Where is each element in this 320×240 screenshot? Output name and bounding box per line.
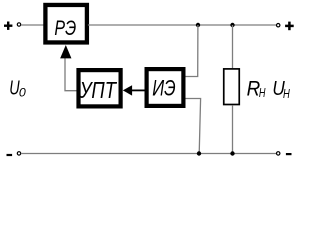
junction node on top wire (x=198) (196, 23, 200, 27)
junction node on top wire (x=232.5) (230, 23, 234, 27)
terminal circle bottom-right (277, 152, 280, 155)
arrowhead into RE bottom (60, 45, 71, 58)
terminal + (top-left) (4, 22, 12, 30)
wire: IE upper tap to top rail (186, 25, 198, 77)
block IE (measuring element) (147, 69, 184, 106)
block RE (regulating element) (45, 5, 87, 43)
wire: RE block to top-right terminal (88, 24, 277, 26)
svg-text:УПТ: УПТ (79, 77, 118, 103)
junction node on bottom rail (x=232.5) (230, 151, 234, 155)
resistor Rn (224, 69, 240, 105)
arrowhead into UPT right side (123, 85, 132, 95)
svg-text:0: 0 (19, 86, 26, 100)
wire: IE lower tap to bottom rail (186, 99, 201, 154)
wire: top-left terminal to RE block (21, 24, 44, 26)
svg-text:Н: Н (283, 87, 290, 101)
wire: resistor Rn down to bottom rail (232, 105, 234, 153)
svg-text:ИЭ: ИЭ (152, 75, 175, 100)
label Uo (input voltage) (9, 78, 26, 100)
wire: IE to UPT (black) (131, 89, 145, 91)
junction node on bottom rail (x=199) (197, 151, 201, 155)
bottom rail wire (21, 153, 277, 155)
terminal circle top-right (277, 24, 280, 27)
terminal - (bottom-right) (286, 153, 292, 155)
terminal circle bottom-left (17, 152, 20, 155)
label Un (output voltage) (272, 77, 290, 101)
terminal + (top-right) (285, 22, 294, 31)
svg-text:Н: Н (259, 86, 266, 100)
wire: top rail down to resistor Rn (232, 25, 234, 68)
block UPT (DC amplifier) (79, 70, 121, 106)
label Rn (load resistance) (247, 78, 267, 101)
svg-text:РЭ: РЭ (54, 16, 76, 40)
terminal circle top-left (17, 23, 20, 26)
wire: UPT output up to RE (vertical with corner) (65, 56, 77, 91)
terminal - (bottom-left) (7, 154, 13, 156)
